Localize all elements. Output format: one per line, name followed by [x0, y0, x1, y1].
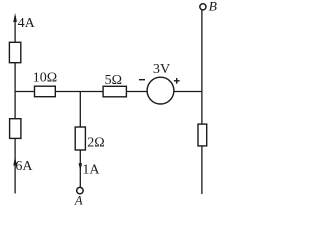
wire horizontal main bus — [15, 91, 202, 93]
svg-text:3V: 3V — [153, 62, 170, 77]
resistor left-bottom — [10, 119, 21, 139]
svg-text:6A: 6A — [15, 159, 33, 174]
wire left branch top (4A current arrow shaft) — [14, 16, 16, 42]
resistor 5ohm — [103, 86, 126, 97]
voltage source U 3V — [147, 77, 174, 104]
node B terminal circle — [200, 4, 206, 10]
svg-text:A: A — [74, 193, 83, 207]
svg-text:10Ω: 10Ω — [33, 71, 57, 86]
resistor 2ohm — [75, 127, 85, 150]
svg-text:5Ω: 5Ω — [105, 73, 122, 88]
svg-text:2Ω: 2Ω — [87, 135, 104, 150]
arrowhead of 1A current (down) — [79, 163, 83, 170]
wire left branch middle — [14, 63, 16, 119]
arrowhead of 6A current (up) — [13, 157, 17, 166]
svg-text:B: B — [209, 0, 218, 14]
polarity plus sign of source (vertical stroke) — [176, 78, 178, 84]
svg-text:4A: 4A — [18, 16, 36, 31]
wire right branch from node B down — [201, 10, 203, 124]
wire right branch below right resistor — [201, 146, 203, 194]
svg-text:1A: 1A — [82, 163, 100, 178]
node A terminal circle — [77, 187, 84, 194]
wire left branch bottom (6A current arrow shaft) — [14, 138, 16, 193]
arrowhead of 4A current (up) — [13, 13, 17, 22]
wire middle branch lower to terminal A — [79, 150, 81, 187]
resistor left-top — [9, 42, 20, 62]
wire middle branch upper — [79, 92, 81, 128]
polarity minus sign of source — [139, 79, 145, 81]
resistor right — [198, 124, 207, 146]
polarity plus sign of source (horizontal stroke) — [174, 80, 180, 82]
resistor 10ohm — [35, 86, 56, 97]
